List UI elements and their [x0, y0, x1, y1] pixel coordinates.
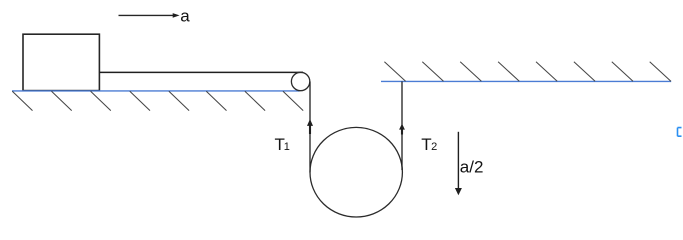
acceleration arrow a (top) [119, 13, 180, 18]
rope (horizontal, block to pulley) [99, 71, 303, 73]
acceleration arrow a/2 (downward) [455, 132, 462, 195]
table hatching [12, 91, 303, 110]
svg-text:a/2: a/2 [460, 157, 484, 176]
block M [23, 34, 99, 90]
tension arrow T2 [399, 124, 405, 135]
small pulley at table edge [291, 72, 309, 90]
rope (vertical, small pulley down to big pulley) [309, 82, 311, 173]
rope (vertical, ceiling down to big pulley) [401, 81, 403, 170]
big pulley (hanging) [310, 127, 402, 217]
ceiling line [381, 80, 671, 82]
svg-text:a: a [180, 7, 190, 26]
table surface line [12, 90, 300, 92]
ceiling hatching [384, 62, 671, 81]
svg-text:T1: T1 [275, 135, 290, 154]
svg-text:T2: T2 [421, 135, 437, 154]
blue cursor mark at right edge [678, 128, 682, 137]
tension arrow T1 [307, 119, 313, 134]
